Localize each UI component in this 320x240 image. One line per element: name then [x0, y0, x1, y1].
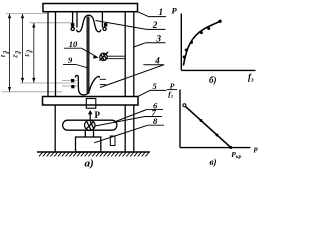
graph v: data dots — [200, 119, 233, 149]
top clamp foot circle right — [103, 27, 106, 30]
small block (right of base) — [110, 136, 115, 146]
svg-text:ℓ3: ℓ3 — [23, 50, 35, 58]
extension line top (l1/l2 datum) — [6, 13, 48, 15]
top clamp rod left — [72, 12, 74, 28]
svg-text:1: 1 — [159, 7, 164, 17]
svg-text:в): в) — [210, 157, 217, 167]
dimension line l1 — [9, 14, 11, 92]
top clamp bell curve — [77, 15, 101, 32]
svg-text:5: 5 — [153, 81, 158, 91]
svg-text:4: 4 — [154, 55, 160, 65]
graph v: open circle start — [183, 104, 186, 107]
svg-text:fз: fз — [248, 72, 254, 84]
bottom beam — [43, 97, 139, 106]
svg-text:ℓ2: ℓ2 — [12, 51, 24, 59]
svg-text:10: 10 — [69, 39, 78, 49]
lever — [63, 120, 117, 130]
specimen strip — [86, 17, 88, 94]
left legs below beam — [54, 105, 56, 152]
extension line l3 datum — [30, 22, 73, 24]
dial mount lines — [107, 55, 125, 57]
top beam — [43, 4, 138, 12]
graph v: y axis — [179, 90, 181, 148]
svg-text:2: 2 — [152, 20, 158, 30]
top clamp bolt left — [71, 23, 74, 26]
left post inner — [55, 12, 57, 97]
dimension line l3 — [33, 23, 35, 83]
graph v: line — [185, 106, 231, 147]
graph b: y axis — [180, 14, 182, 71]
svg-text:8: 8 — [153, 116, 158, 126]
right legs below beam — [124, 105, 126, 152]
ground line — [37, 151, 150, 153]
top clamp bolt right — [104, 23, 107, 26]
svg-text:9: 9 — [68, 55, 73, 65]
base block — [76, 137, 101, 152]
extension line l2/l3 bottom datum — [20, 82, 76, 84]
force P arrow — [89, 111, 91, 120]
svg-text:3: 3 — [156, 33, 162, 43]
graph b: curve — [183, 21, 220, 65]
svg-text:р: р — [253, 144, 258, 153]
pivot stem — [84, 130, 86, 137]
bottom clamp right tick lower — [100, 84, 106, 86]
bottom clamp bolt left lower — [71, 85, 74, 88]
top clamp foot circle left — [71, 27, 74, 30]
bottom clamp right tick upper — [100, 78, 106, 80]
svg-text:P: P — [95, 110, 101, 120]
left post outer — [47, 12, 49, 97]
lever pivot — [85, 120, 95, 130]
dial indicator — [100, 53, 107, 60]
graph b: data dots — [183, 20, 222, 59]
extension line bottom clamp upper bolt row — [62, 80, 77, 82]
right post outer — [133, 12, 135, 97]
dimension line l2 — [22, 14, 24, 83]
extension line l1 bottom datum — [2, 91, 62, 93]
right post inner — [124, 12, 126, 97]
svg-text:а): а) — [85, 158, 94, 170]
svg-text:P: P — [172, 5, 178, 15]
top clamp rod right — [101, 12, 103, 28]
bottom clamp bolt left upper — [71, 79, 74, 82]
graph b: x axis — [181, 69, 255, 71]
bottom clamp cup curve — [75, 75, 99, 94]
ground hatching — [39, 152, 149, 156]
graph v: x axis — [180, 147, 251, 149]
svg-text:fз: fз — [168, 89, 174, 99]
svg-text:Pкр: Pкр — [231, 150, 241, 160]
svg-text:б): б) — [209, 75, 217, 85]
load hanger box — [86, 99, 96, 109]
